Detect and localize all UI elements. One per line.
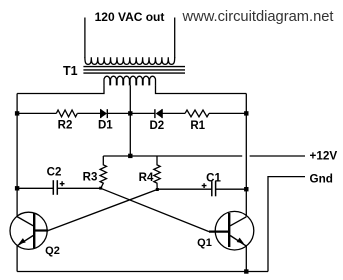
resistor R2 <box>56 110 77 117</box>
wire C1 to right vertical <box>216 188 247 190</box>
node R3 bottom <box>99 187 102 190</box>
svg-text:C2: C2 <box>47 167 62 179</box>
wire left rail lower <box>16 245 18 271</box>
wire Gnd lead <box>268 177 305 272</box>
svg-text:D2: D2 <box>149 120 164 132</box>
wire R4 to C1 <box>157 188 212 190</box>
wire R2 to D1 <box>77 112 100 114</box>
wire base row left <box>17 112 56 114</box>
wire R1 to right rail <box>209 112 246 114</box>
svg-text:www.circuitdiagram.net: www.circuitdiagram.net <box>182 9 334 25</box>
svg-text:R1: R1 <box>190 120 205 132</box>
wire right vertical lower <box>245 246 247 272</box>
wire secondary lead left <box>84 18 86 59</box>
resistor R4 <box>154 156 160 190</box>
wire C2 to R3 <box>57 187 100 189</box>
node R4 bottom <box>156 188 159 191</box>
wire D1 to D2 <box>107 112 155 114</box>
svg-text:120 VAC out: 120 VAC out <box>95 10 165 24</box>
node center tap / base row <box>128 111 132 115</box>
node center tap / +12V rail <box>128 154 132 158</box>
transistor Q2 <box>10 212 47 249</box>
svg-text:Q1: Q1 <box>197 237 212 249</box>
label C2 plus <box>60 181 65 186</box>
wire right vertical upper <box>245 94 247 217</box>
svg-text:D1: D1 <box>98 120 113 132</box>
wire primary lead left <box>17 85 104 93</box>
node right vertical / bottom rail <box>244 269 248 273</box>
resistor R1 <box>185 110 209 117</box>
node left rail / C2 row <box>15 186 19 190</box>
svg-text:C1: C1 <box>206 173 221 185</box>
wire primary lead right <box>156 85 247 93</box>
wire center tap <box>129 85 131 156</box>
svg-text:Q2: Q2 <box>45 245 60 257</box>
diode D2 <box>154 109 156 118</box>
transformer T1 core <box>83 66 185 68</box>
transformer T1 secondary winding <box>85 57 175 64</box>
capacitor C1 <box>211 181 213 196</box>
wire +12V rail right part <box>250 155 305 157</box>
node left rail / base row <box>15 111 19 115</box>
wire D2 to R1 <box>162 112 185 114</box>
svg-text:R2: R2 <box>58 120 73 132</box>
svg-text:+12V: +12V <box>310 150 338 163</box>
svg-text:Gnd: Gnd <box>310 173 333 186</box>
resistor R3 <box>100 156 106 188</box>
transformer T1 primary winding <box>104 76 156 85</box>
wire cross R4 to Q2 base <box>48 190 157 231</box>
node right vertical / C1 row <box>244 187 248 191</box>
wire left rail upper <box>16 94 18 217</box>
capacitor C2 <box>52 180 54 195</box>
node right vertical / base row <box>244 111 248 115</box>
wire C2 row left <box>17 187 53 189</box>
wire secondary lead right <box>174 18 176 59</box>
wire +12V rail left part <box>103 155 242 157</box>
wire bottom rail <box>17 271 268 273</box>
svg-text:R4: R4 <box>139 172 154 184</box>
label C1 plus <box>202 183 207 188</box>
svg-text:R3: R3 <box>83 172 98 184</box>
transistor Q1 <box>215 211 254 250</box>
svg-text:T1: T1 <box>63 64 78 78</box>
wire cross R3 to Q1 base <box>101 188 209 231</box>
diode D1 <box>100 109 102 118</box>
